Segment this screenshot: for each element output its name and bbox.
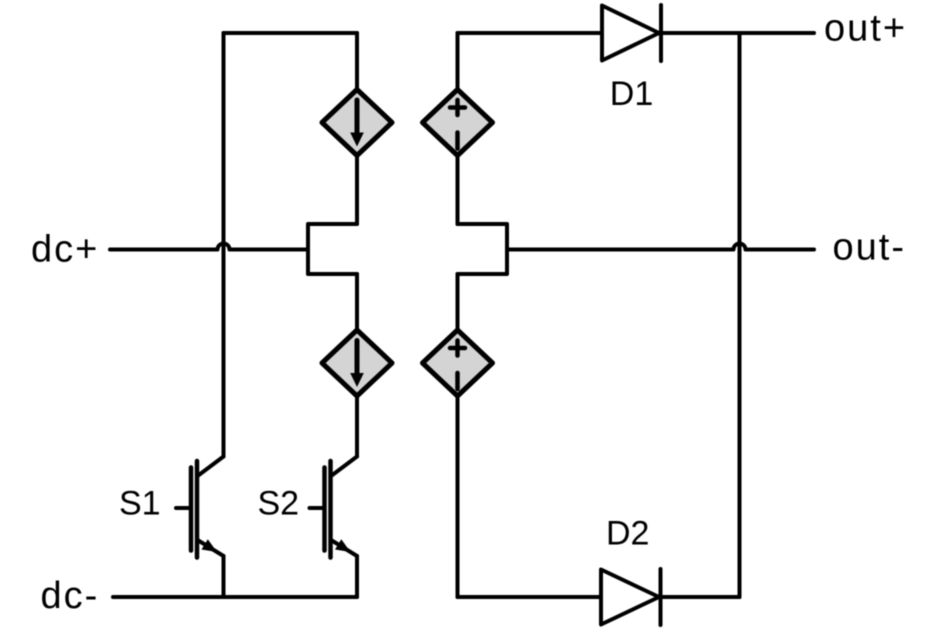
wire top-left horizontal [224, 31, 358, 35]
svg-text:dc-: dc- [41, 575, 100, 617]
wire D1 cathode to out+ [661, 31, 814, 35]
voltage source V1 [423, 90, 493, 156]
wire out- lead with hop over right vertical [507, 244, 814, 250]
current source I2 [322, 330, 392, 396]
wire right vertical (out+ to D2) [738, 33, 742, 597]
node bracket right (out- junction) [458, 224, 508, 274]
svg-text:D2: D2 [606, 515, 649, 553]
diode D1 [602, 5, 661, 61]
svg-text:out+: out+ [824, 8, 907, 50]
node bracket left (dc+ junction) [308, 224, 357, 274]
wire CS2 bottom lead (S2 collector) [355, 396, 359, 457]
wire CS2 top lead [355, 274, 359, 330]
wire CS1 top lead [355, 33, 359, 90]
wire VS1 bottom lead [456, 156, 460, 225]
svg-text:out-: out- [833, 227, 906, 269]
wire VS2 bottom lead [456, 396, 460, 597]
wire D2 cathode to right vertical [661, 595, 740, 599]
diode D2 [601, 569, 661, 625]
svg-text:D1: D1 [610, 75, 653, 113]
voltage source V2 [423, 330, 493, 396]
transistor S1 [176, 457, 224, 598]
current source I1 [322, 90, 392, 156]
svg-text:S2: S2 [258, 485, 300, 523]
wire CS1 bottom lead [355, 156, 359, 225]
wire dc- bottom rail [113, 595, 357, 599]
wire dc+ lead with hop over left vertical [110, 244, 308, 250]
wire top-right to D1 anode [458, 31, 603, 35]
wire VS2 to D2 anode [458, 595, 602, 599]
svg-text:dc+: dc+ [31, 229, 99, 271]
transistor S2 [310, 457, 358, 598]
svg-text:S1: S1 [119, 485, 161, 523]
wire VS2 top lead [456, 274, 460, 330]
wire left vertical (dc+ bus to S1 collector) [222, 33, 226, 457]
wire VS1 top lead [456, 33, 460, 90]
